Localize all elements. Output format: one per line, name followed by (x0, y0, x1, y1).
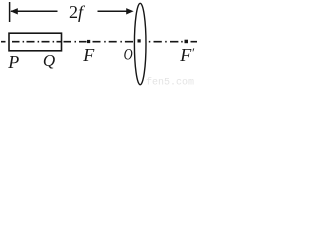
svg-text:F: F (82, 45, 95, 65)
lens L (134, 3, 146, 84)
focus marker F' (185, 40, 189, 44)
object rectangle PQ (9, 33, 62, 51)
svg-text:O: O (124, 46, 134, 64)
svg-text:fen5.com: fen5.com (146, 77, 194, 88)
dimension arrow left segment (11, 10, 58, 12)
svg-text:F′: F′ (179, 45, 194, 65)
lens center marker O (138, 39, 141, 42)
optical axis (dash-dot segments) (1, 41, 197, 43)
focus marker F (87, 40, 90, 43)
svg-text:2f: 2f (69, 2, 86, 22)
svg-text:Q: Q (43, 51, 55, 70)
svg-text:P: P (7, 52, 19, 72)
dimension arrow right segment (98, 10, 129, 12)
dimension tick left (9, 2, 11, 22)
